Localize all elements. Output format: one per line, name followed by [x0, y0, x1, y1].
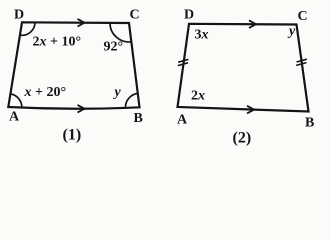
svg-text:(2): (2)	[233, 130, 252, 147]
svg-text:2x: 2x	[191, 88, 205, 103]
svg-text:D: D	[14, 8, 24, 23]
svg-text:B: B	[305, 116, 314, 131]
svg-text:A: A	[177, 113, 188, 128]
svg-text:(1): (1)	[63, 127, 82, 144]
svg-text:x + 20°: x + 20°	[24, 85, 67, 100]
svg-text:y: y	[113, 85, 122, 100]
svg-text:y: y	[287, 24, 296, 39]
svg-text:C: C	[298, 9, 308, 24]
svg-text:A: A	[9, 109, 20, 124]
svg-text:D: D	[184, 8, 194, 23]
svg-text:92°: 92°	[104, 40, 124, 55]
svg-text:2x + 10°: 2x + 10°	[33, 35, 82, 50]
svg-text:B: B	[134, 111, 143, 126]
svg-text:C: C	[130, 8, 140, 23]
svg-text:3x: 3x	[195, 27, 209, 42]
